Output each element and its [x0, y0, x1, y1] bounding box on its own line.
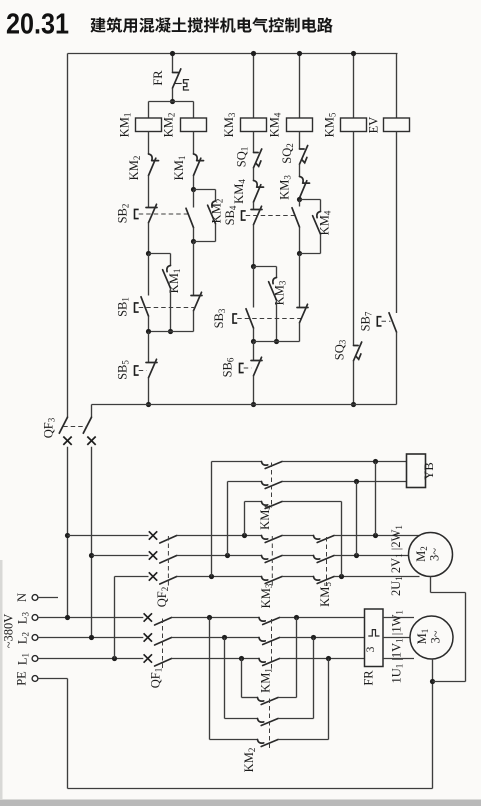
wire — [280, 617, 365, 619]
wire — [254, 341, 300, 343]
wire — [194, 189, 216, 191]
wire — [193, 176, 195, 190]
contact KM3 main 2 — [262, 556, 283, 563]
contact KM5 main 1 — [314, 536, 335, 543]
contact KM3 NC interlock — [300, 177, 310, 199]
wire — [276, 267, 278, 278]
contact KM4 main row3 — [262, 502, 283, 509]
label FR — [151, 70, 165, 86]
wire KM2 row2 out — [278, 638, 314, 719]
mechanical link QF1 — [162, 619, 164, 670]
coil KM5 — [341, 118, 367, 132]
wire drop row1 — [375, 462, 377, 536]
label 3~ (M2) — [428, 548, 442, 561]
wire M2 line3 — [115, 576, 149, 578]
wire — [353, 132, 355, 346]
breaker QF2 pole 1 — [149, 531, 177, 543]
contact KM2 NC interlock — [149, 154, 159, 176]
coil KM1 — [136, 118, 162, 132]
label M1 — [415, 629, 430, 645]
svg-text:~380V: ~380V — [2, 614, 16, 649]
label SB1 — [116, 297, 131, 317]
wire — [353, 361, 355, 405]
node KM3-holding tap — [251, 264, 256, 269]
contact KM4 main row1 — [262, 462, 283, 469]
wire KM2 row3 out — [278, 659, 329, 740]
label KM1 — [118, 113, 133, 138]
button cap SB5 — [135, 366, 139, 375]
wire KM2 row1 out — [278, 618, 297, 698]
wire — [148, 132, 150, 155]
pushbutton SB5 stop — [146, 359, 157, 377]
label KM1 — [167, 269, 182, 294]
contact KM4 NC interlock — [254, 181, 264, 203]
svg-text:3~: 3~ — [429, 630, 443, 643]
wire — [177, 555, 262, 557]
label FR — [362, 670, 376, 686]
wire — [299, 132, 301, 150]
wire — [91, 405, 93, 418]
wire — [193, 132, 195, 155]
wire — [172, 617, 260, 619]
svg-text:FR: FR — [362, 670, 376, 686]
thermal relay contact FR — [173, 69, 190, 90]
wire KM2 row1 in — [242, 659, 258, 698]
thermal relay FR heater box — [365, 609, 384, 667]
wire — [149, 331, 194, 333]
terminal L1 — [32, 656, 38, 662]
button cap SB6 — [240, 363, 244, 372]
pushbutton SB7 NO contact — [389, 313, 397, 332]
node tap line1 — [65, 533, 70, 538]
contact KM2 main row3 — [258, 740, 279, 747]
contact KM3 self-holding NO — [269, 278, 277, 301]
label M2 — [414, 546, 429, 562]
wire top control bus — [68, 53, 398, 55]
wire drop row3 — [341, 502, 343, 577]
wire — [149, 253, 171, 255]
limit switch SQ1 contact — [254, 149, 262, 168]
node — [274, 339, 279, 344]
svg-text:3~: 3~ — [428, 548, 442, 561]
svg-text:YB: YB — [422, 462, 436, 479]
wire FR branch — [172, 54, 174, 73]
button cap SB3 — [233, 314, 237, 323]
wire PE run — [38, 679, 433, 789]
wire — [193, 190, 195, 208]
label KM2 — [210, 199, 225, 224]
wire drop row2 — [356, 482, 358, 556]
contact KM1 main L3 — [259, 618, 280, 625]
terminal PE — [32, 676, 38, 682]
wire QF3 pole2 to L2 — [91, 447, 93, 638]
wire — [334, 576, 420, 578]
mechanical link SB4 — [246, 215, 295, 217]
wire — [253, 342, 255, 361]
pushbutton SB4 NO contact — [292, 208, 300, 227]
node — [373, 533, 378, 538]
node bottom bus — [351, 402, 356, 407]
mechanical link SB6 — [244, 367, 252, 369]
mechanical link KM4 main — [271, 463, 273, 509]
wire — [300, 253, 321, 255]
wire — [253, 267, 255, 308]
node KM2 row1 out — [294, 615, 299, 620]
label L3 — [16, 611, 31, 624]
svg-text:PE: PE — [15, 671, 29, 686]
node L2 to KM2 row2 — [222, 635, 227, 640]
node — [354, 553, 359, 558]
terminal L2 — [32, 635, 38, 641]
breaker QF2 pole 2 — [149, 551, 177, 563]
wire M2 line1 — [68, 535, 149, 537]
wire — [282, 501, 342, 503]
wire N stub — [38, 597, 58, 599]
label SB5 — [116, 360, 131, 380]
node frame junction — [430, 679, 435, 684]
wire — [253, 202, 255, 210]
mechanical link SB5 — [139, 370, 147, 372]
pushbutton SB2 NO contact — [186, 208, 194, 227]
wire — [172, 637, 260, 639]
node top bus / FR branch — [170, 51, 175, 56]
wire KM4 branch — [299, 54, 301, 119]
node L3 to KM2 row3 — [207, 615, 212, 620]
mechanical link KM2 main — [269, 699, 271, 751]
node KM2 row2 out — [311, 635, 316, 640]
node KM1-holding tap — [146, 251, 151, 256]
wire — [396, 132, 398, 314]
label SB2 — [116, 204, 131, 224]
node — [146, 329, 151, 334]
contact KM2 self-holding NO — [208, 201, 216, 224]
svg-text:3: 3 — [365, 646, 377, 652]
breaker QF1 pole L2 — [144, 633, 172, 645]
node bottom bus — [251, 402, 256, 407]
label SB4 — [223, 205, 238, 225]
label KM4 main — [258, 505, 273, 530]
mechanical link KM3 main — [271, 536, 273, 588]
pushbutton SB1 NC contact — [191, 292, 202, 310]
label L2 — [16, 632, 31, 644]
node — [251, 51, 256, 56]
wire — [148, 102, 150, 119]
wire — [170, 254, 172, 266]
button cap SB2 — [135, 209, 139, 218]
wire KM4 row3 — [245, 502, 262, 536]
wire — [148, 332, 150, 363]
wire left feeder (L3 to top bus) — [67, 54, 69, 418]
label PE — [15, 671, 29, 686]
contact KM1 NC interlock — [194, 154, 204, 176]
pushbutton SB1 NO contact — [141, 297, 149, 316]
coil KM2 — [181, 118, 207, 132]
wire L2 — [38, 637, 143, 639]
breaker QF3 pole 1 — [59, 417, 71, 445]
node — [251, 339, 256, 344]
mechanical link SB1 — [139, 307, 198, 309]
label 3~ — [429, 630, 443, 643]
label KM2 main — [242, 748, 257, 773]
label QF1 — [149, 668, 164, 688]
node — [297, 51, 302, 56]
label KM3 — [278, 175, 293, 200]
wire — [177, 535, 262, 537]
labels M2 terminals 2U1 2V1 2W1 — [389, 525, 404, 596]
label SB3 — [212, 308, 227, 328]
wire — [299, 200, 301, 207]
node KM4 self-hold bottom — [297, 251, 302, 256]
wire KM2 row2 in — [225, 638, 258, 719]
wire — [280, 658, 365, 660]
contact KM2 main row1 — [258, 698, 279, 705]
pushbutton SB2 NC contact — [146, 204, 157, 222]
node riser tap — [209, 574, 214, 579]
limit switch SQ2 contact — [300, 146, 308, 165]
wire — [177, 576, 262, 578]
contact KM2 main row2 — [258, 719, 279, 726]
button cap SB7 — [377, 317, 381, 326]
wire — [148, 316, 150, 331]
label KM3 main — [259, 583, 274, 608]
pushbutton SB3 NC contact — [297, 304, 308, 322]
label N — [15, 593, 29, 602]
wire L3 — [38, 617, 143, 619]
node — [354, 479, 359, 484]
button cap SB4 — [242, 211, 246, 220]
terminal N — [32, 595, 38, 601]
motor M2 — [409, 533, 453, 577]
wire — [282, 555, 314, 557]
heading number 20.31 — [6, 9, 69, 41]
label KM3 — [273, 280, 288, 305]
node tap line2 — [89, 553, 94, 558]
breaker QF3 pole 2 — [83, 417, 95, 445]
svg-text:EV: EV — [367, 117, 381, 134]
node L2/control feed — [89, 635, 94, 640]
wire QF3 pole1 to L3 — [67, 447, 69, 618]
wire FR to M1 (1U1) — [383, 658, 414, 660]
wire bottom control bus — [92, 404, 397, 406]
svg-text:1U1 |1V1 |1W1: 1U1 |1V1 |1W1 — [390, 610, 406, 683]
wire — [148, 254, 150, 296]
wire — [193, 102, 195, 119]
wire — [148, 223, 150, 254]
node riser tap — [225, 553, 230, 558]
wire — [193, 311, 195, 332]
label KM1 main — [259, 668, 274, 693]
contact KM4 main row2 — [262, 482, 283, 489]
wire — [215, 224, 217, 242]
wire FR to M1 (1V1) — [383, 637, 410, 639]
wire — [320, 200, 322, 212]
wire — [280, 637, 365, 639]
breaker QF1 pole L3 — [144, 613, 172, 625]
wire — [253, 225, 255, 267]
wire L1 riser to line3 — [114, 577, 116, 659]
label YB — [422, 462, 436, 479]
wire — [334, 555, 409, 557]
scan page left edge — [0, 560, 3, 800]
wire KM4 row2 — [228, 482, 262, 556]
pushbutton SB3 NO contact — [246, 309, 254, 328]
label KM5 — [323, 112, 338, 137]
limit switch SQ3 contact — [354, 342, 362, 361]
label KM3 — [222, 112, 237, 137]
wire KM4 row1 — [212, 462, 262, 577]
wire — [148, 176, 150, 208]
wire — [193, 228, 195, 242]
terminal L3 — [32, 615, 38, 621]
label KM4 — [318, 210, 333, 235]
solenoid coil EV — [384, 118, 410, 132]
contact KM4 self-holding NO — [313, 212, 321, 235]
label KM2 — [127, 156, 142, 181]
label ~380V — [2, 614, 16, 649]
mechanical link QF3 — [63, 426, 87, 428]
coil KM3 — [241, 118, 267, 132]
mechanical link SB7 — [382, 320, 391, 322]
wire — [334, 535, 420, 537]
wire M2 line2 — [92, 555, 149, 557]
svg-text:20.31: 20.31 — [6, 9, 69, 41]
motor M1 — [410, 616, 453, 659]
label EV — [367, 117, 381, 134]
wire M1 frame — [432, 659, 434, 789]
wire — [299, 164, 301, 176]
svg-text:N: N — [15, 593, 29, 602]
node — [351, 51, 356, 56]
wire coil feeder — [149, 101, 194, 103]
node — [168, 329, 173, 334]
contact KM3 main 1 — [262, 536, 283, 543]
wire — [215, 190, 217, 202]
label SQ3 — [333, 339, 348, 360]
wire — [300, 199, 321, 201]
breaker QF1 pole L1 — [144, 654, 172, 666]
label KM5 main — [318, 582, 333, 607]
node — [373, 459, 378, 464]
FR heater symbol — [368, 630, 379, 636]
scan page bottom edge — [0, 800, 481, 806]
wire — [148, 378, 150, 405]
label L1 — [16, 653, 31, 665]
wire — [299, 323, 301, 342]
wire — [194, 241, 216, 243]
node L3/control feed — [65, 615, 70, 620]
node L1/M2 feed — [112, 656, 117, 661]
wire KM5 branch — [353, 54, 355, 119]
pushbutton SB4 NC contact — [251, 206, 262, 224]
wire — [299, 227, 301, 253]
heading title (Chinese, as vector paths) — [90, 17, 332, 32]
wire — [172, 658, 260, 660]
mechanical link SB2 — [139, 213, 190, 215]
svg-text:2U1 2V1 |2W1: 2U1 2V1 |2W1 — [389, 525, 404, 596]
label KM2 — [162, 113, 177, 138]
mechanical link SB3 — [237, 318, 303, 320]
label SQ2 — [280, 143, 295, 163]
wire — [254, 266, 277, 268]
contact KM1 self-holding NO — [163, 266, 171, 289]
node coil feeder junction — [170, 99, 175, 104]
breaker QF2 pole 3 — [149, 572, 177, 584]
contact KM1 main L2 — [259, 638, 280, 645]
mechanical link KM1 main — [271, 619, 273, 672]
pushbutton SB6 stop — [251, 357, 262, 375]
node KM4 self-hold top — [297, 197, 302, 202]
node KM2 self-hold bottom — [191, 239, 196, 244]
wire — [282, 535, 314, 537]
wire EV branch — [396, 54, 398, 119]
wire KM3 branch — [253, 54, 255, 119]
wire — [282, 576, 314, 578]
label QF2 — [155, 587, 170, 607]
label SB6 — [221, 357, 236, 377]
label KM4 — [268, 112, 283, 137]
wire — [299, 254, 301, 308]
wire L1 — [38, 658, 143, 660]
contact KM5 main 3 — [314, 577, 335, 584]
contact KM1 main L1 — [259, 659, 280, 666]
wire — [320, 234, 322, 253]
node riser tap — [242, 533, 247, 538]
wire — [282, 481, 407, 483]
mechanical link QF2 — [167, 536, 169, 588]
svg-text:FR: FR — [151, 70, 165, 86]
wire M2 frame — [431, 577, 466, 682]
node KM2 row3 out — [326, 656, 331, 661]
label KM1 — [172, 156, 187, 181]
wire — [299, 198, 301, 200]
wire — [253, 376, 255, 405]
node — [339, 574, 344, 579]
label KM4 — [232, 179, 247, 204]
label 3 (FR poles) — [365, 646, 377, 652]
label SB7 — [359, 311, 374, 331]
contact KM5 main 2 — [314, 556, 335, 563]
mechanical link KM5 main — [326, 537, 328, 586]
coil KM4 — [287, 118, 313, 132]
node KM2 self-hold top — [191, 187, 196, 192]
node bottom bus — [146, 402, 151, 407]
brake solenoid YB — [407, 454, 426, 488]
labels M1 terminals 1U1 1V1 1W1 — [390, 610, 406, 683]
wire — [170, 288, 172, 331]
contact KM3 main 3 — [262, 577, 283, 584]
wire — [253, 132, 255, 153]
button cap SB1 — [135, 303, 139, 312]
wire — [193, 242, 195, 296]
wire FR to M1 (1W1) — [383, 617, 414, 619]
wire KM2 row3 in — [210, 618, 258, 740]
wire — [253, 328, 255, 341]
wire — [276, 300, 278, 341]
wire — [282, 461, 407, 463]
label SQ1 — [235, 147, 250, 167]
wire — [253, 168, 255, 181]
wire — [396, 332, 398, 404]
node L1 to KM2 row1 — [239, 656, 244, 661]
wire — [172, 88, 174, 101]
label QF3 — [42, 417, 57, 438]
